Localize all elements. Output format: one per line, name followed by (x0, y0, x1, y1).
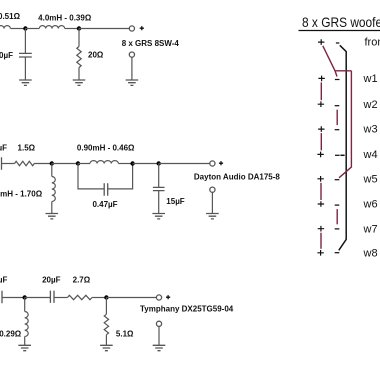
svg-text:w5: w5 (363, 174, 378, 186)
ground (L5) (18, 345, 31, 350)
wire: node C down to L3 (51, 164, 53, 177)
source minus sign (336, 42, 339, 44)
wire: node F to terminal T2+ (159, 163, 210, 165)
svg-text:2.7Ω: 2.7Ω (73, 276, 91, 285)
resistor R2 1.5ohm (15, 161, 35, 165)
w7 plus sign (318, 226, 324, 232)
wire: red branch horizontal at top (335, 70, 351, 72)
wire: C3 up to node E (108, 164, 133, 189)
wire: node H to terminal T3+ (106, 297, 156, 299)
w6 minus sign (335, 204, 340, 206)
svg-text:w7: w7 (363, 223, 378, 235)
svg-text:1.0mH - 1.70Ω: 1.0mH - 1.70Ω (0, 190, 43, 199)
svg-text:8 x GRS 8SW-4: 8 x GRS 8SW-4 (122, 39, 180, 48)
svg-text:4.0mH - 0.39Ω: 4.0mH - 0.39Ω (38, 13, 92, 22)
w3 minus sign (335, 129, 340, 131)
node F (157, 161, 161, 165)
svg-text:w8: w8 (363, 247, 378, 259)
capacitor C5 (series, cut off at left edge) (0, 291, 2, 303)
ground (L3) (46, 214, 59, 219)
ground (C1) (19, 80, 32, 85)
capacitor C3 0.47uF (104, 183, 108, 195)
wire: node E to node F (133, 163, 159, 165)
node E (130, 161, 134, 165)
terminal T2+ (210, 161, 215, 166)
wire: node A down to C1 (24, 29, 26, 54)
ground (T2-) (206, 214, 219, 219)
wire: w3+ to w4+ (red) (320, 133, 322, 150)
plus sign T3+ (166, 295, 170, 299)
wire: source plus diagonal to w1 minus (red) (323, 46, 337, 77)
plus sign T1+ (140, 26, 144, 30)
inductor L1 (series, cut off at left edge) (0, 26, 10, 29)
wire: T2- to ground (211, 192, 213, 213)
svg-text:30µF: 30µF (0, 276, 8, 285)
wire: R4 to ground (105, 335, 107, 346)
w2 plus sign (318, 101, 324, 107)
terminal T3+ (156, 295, 161, 300)
svg-text:2.0mH - 0.51Ω: 2.0mH - 0.51Ω (0, 12, 21, 21)
ground (C4) (152, 214, 165, 219)
svg-text:30µF: 30µF (0, 144, 7, 153)
w5 minus sign (335, 179, 340, 181)
ground (R4) (100, 345, 113, 350)
svg-text:w1: w1 (363, 73, 378, 85)
wire: L1 to node A (10, 28, 25, 30)
svg-text:w6: w6 (363, 199, 378, 211)
inductor L5 (shunt) 0.30mH - 0.29ohm (25, 312, 29, 337)
ground (T1-) (126, 80, 139, 85)
wire: w1+ to w2+ (red) (320, 82, 322, 100)
svg-text:w2: w2 (363, 99, 378, 111)
wire: w2- to w3- (red) (336, 110, 338, 125)
wire: node G down to L5 (24, 298, 26, 312)
wire: node H down to R4 (105, 298, 107, 315)
w4 minus sign (335, 154, 340, 156)
w3 plus sign (318, 126, 324, 132)
wire: R2 to node C (34, 163, 52, 165)
wire: C5 to node G (2, 297, 25, 299)
w1 plus sign (318, 76, 324, 82)
node G (23, 295, 27, 299)
node B (77, 26, 81, 30)
wire: node F down to C4 (158, 164, 160, 188)
wire: red right bus down to w5 minus (339, 71, 351, 178)
wire: node G to C6 (25, 297, 51, 299)
title underline (299, 30, 380, 32)
svg-text:15µF: 15µF (166, 197, 185, 206)
wire: node A to L2 (25, 28, 39, 30)
svg-text:20µF: 20µF (42, 276, 61, 285)
inductor L2 4.0mH (39, 26, 64, 29)
ground (T3-) (153, 345, 166, 350)
wire: node D down for C3 branch (78, 164, 104, 189)
plus sign T2+ (219, 161, 223, 165)
svg-text:w3: w3 (363, 124, 378, 136)
wire: C6 to R3 (54, 297, 67, 299)
node A (23, 26, 27, 30)
resistor R1 20ohm (77, 47, 81, 68)
wire: T3- to ground (158, 326, 160, 345)
wire: node B down to R1 (78, 29, 80, 47)
capacitor C2 (series, cut off at left edge) (0, 157, 2, 169)
wire: C2 to R2 (2, 163, 15, 165)
inductor L3 (shunt) 1.0mH - 1.70ohm (52, 177, 56, 202)
w1 minus sign (335, 79, 340, 81)
w5 plus sign (317, 176, 323, 182)
w8 plus sign (317, 250, 323, 256)
svg-text:5.1Ω: 5.1Ω (116, 329, 134, 338)
terminal T1+ (129, 26, 134, 31)
svg-text:0.30mH - 0.29Ω: 0.30mH - 0.29Ω (0, 329, 22, 338)
node C (50, 161, 54, 165)
svg-text:w4: w4 (363, 149, 378, 161)
w7 minus sign (335, 228, 340, 230)
wire: R3 to node H (92, 297, 106, 299)
wire: w5+ to w6+ (red) (320, 183, 322, 200)
w8 minus sign (335, 252, 340, 254)
wire: L2 to node B (65, 28, 79, 30)
capacitor C1 100uF (19, 53, 32, 57)
w6 plus sign (318, 201, 324, 207)
wire: L4 to node E (118, 163, 132, 165)
inductor L4 0.90mH (90, 161, 118, 164)
svg-text:20Ω: 20Ω (88, 51, 104, 60)
wire: w4- dash to black bus (340, 154, 344, 156)
node H (104, 295, 108, 299)
source plus sign (318, 39, 324, 45)
capacitor C4 15uF (153, 187, 165, 190)
wire: node B to terminal T1+ (79, 28, 129, 30)
svg-text:Dayton Audio DA175-8: Dayton Audio DA175-8 (194, 172, 280, 181)
w4 plus sign (317, 152, 323, 158)
svg-text:Tymphany DX25TG59-04: Tymphany DX25TG59-04 (140, 304, 234, 313)
ground (R1) (73, 80, 86, 85)
wire: L3 to ground (51, 202, 53, 214)
wire: node C to node D (52, 163, 78, 165)
svg-text:from: from (365, 37, 380, 49)
wire: T1- to ground (131, 57, 133, 80)
wire: R1 to ground (78, 68, 80, 81)
terminal T3- (156, 321, 161, 326)
svg-text:100µF: 100µF (0, 51, 13, 60)
svg-text:0.47µF: 0.47µF (92, 200, 117, 209)
resistor R3 2.7ohm (67, 295, 92, 299)
wire: C4 to ground (158, 191, 160, 214)
wire: C1 to ground (24, 57, 26, 80)
wire: node D to L4 (78, 163, 90, 165)
w2 minus sign (335, 105, 340, 107)
svg-text:8 x GRS woofer wiring: 8 x GRS woofer wiring (302, 14, 380, 30)
capacitor C6 20uF (50, 291, 54, 303)
wire: source minus to black bus (down right side) (339, 45, 346, 250)
terminal T1- (129, 52, 134, 57)
svg-text:1.5Ω: 1.5Ω (18, 144, 36, 153)
wire: L5 to ground (24, 337, 26, 346)
svg-text:0.90mH - 0.46Ω: 0.90mH - 0.46Ω (77, 144, 135, 153)
wire: w7+ to w8+ (red) (320, 233, 322, 249)
node D (76, 161, 80, 165)
terminal T2- (210, 187, 215, 192)
resistor R4 5.1ohm (104, 314, 108, 334)
wire: w6- to w7- (red) (336, 209, 338, 224)
